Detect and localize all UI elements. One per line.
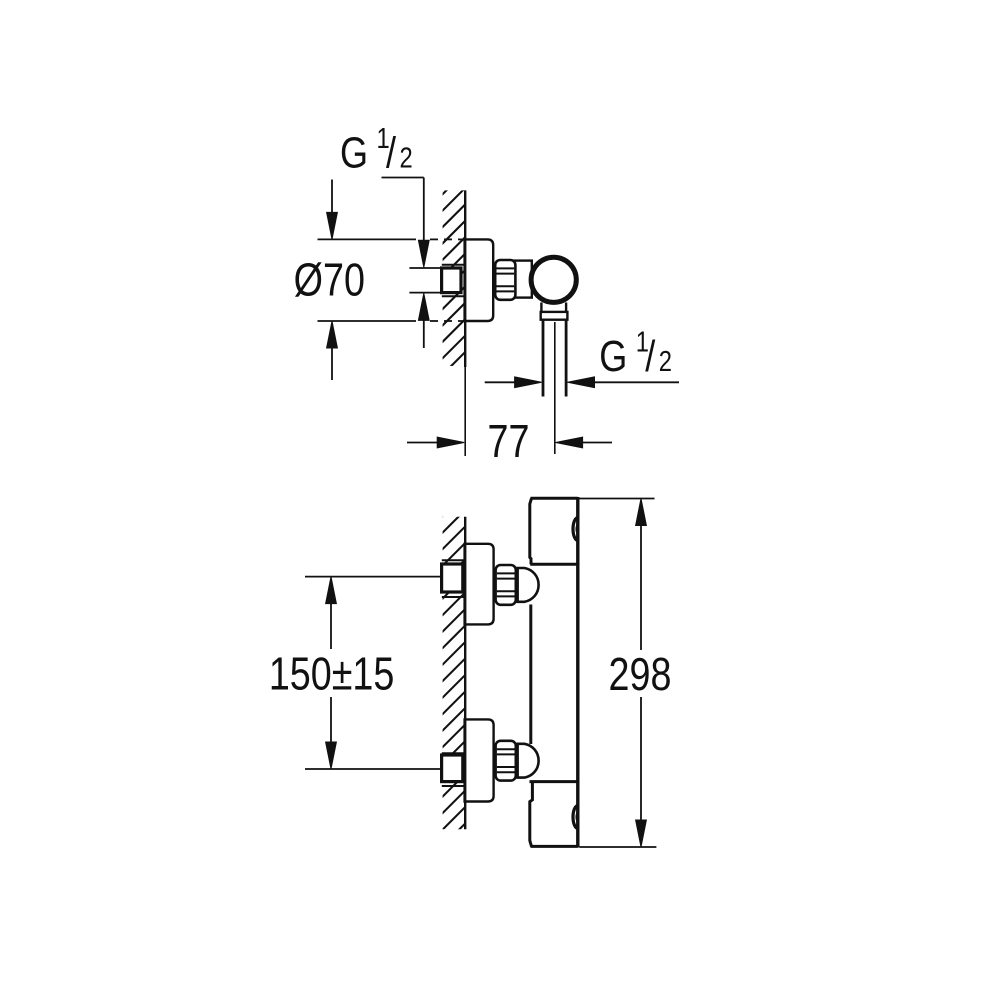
svg-text:/: / xyxy=(645,332,656,381)
svg-text:/: / xyxy=(386,128,397,177)
svg-text:G: G xyxy=(599,332,627,381)
svg-text:150±15: 150±15 xyxy=(269,648,395,699)
svg-text:Ø70: Ø70 xyxy=(294,254,365,305)
svg-text:2: 2 xyxy=(400,141,413,174)
svg-text:G: G xyxy=(340,128,368,177)
svg-text:298: 298 xyxy=(609,648,672,699)
svg-text:77: 77 xyxy=(488,415,530,466)
svg-text:2: 2 xyxy=(659,345,672,378)
